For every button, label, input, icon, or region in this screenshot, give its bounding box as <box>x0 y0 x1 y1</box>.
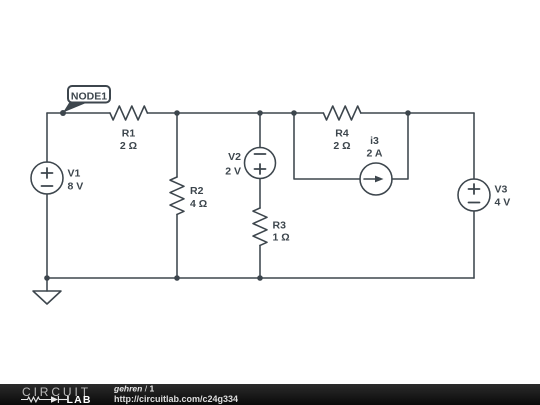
svg-text:V3: V3 <box>495 184 508 196</box>
voltage source V3 <box>458 179 490 211</box>
svg-text:NODE1: NODE1 <box>71 91 107 103</box>
wire right rail upper <box>473 113 475 179</box>
wire V2 to R3 <box>259 179 261 209</box>
junction dot loop right <box>405 110 411 116</box>
svg-text:2 Ω: 2 Ω <box>333 140 350 152</box>
junction dot bottom R3 <box>257 275 263 281</box>
ground <box>33 278 61 304</box>
resistor R1 <box>110 106 147 120</box>
wire top rail left <box>47 112 110 114</box>
svg-text:V2: V2 <box>228 151 241 163</box>
wire bottom rail <box>47 277 474 279</box>
current source i3 <box>360 163 392 195</box>
svg-text:gehren / 1: gehren / 1 <box>113 384 154 394</box>
node NODE1 flag <box>63 86 110 113</box>
svg-text:http://circuitlab.com/c24g334: http://circuitlab.com/c24g334 <box>114 394 238 404</box>
svg-text:4 V: 4 V <box>495 197 511 209</box>
junction dot top R2 <box>174 110 180 116</box>
svg-text:R1: R1 <box>122 128 136 140</box>
resistor R2 <box>170 177 184 214</box>
wire R2 branch lower <box>176 214 178 278</box>
svg-text:i3: i3 <box>370 135 379 147</box>
svg-text:LAB: LAB <box>67 394 92 405</box>
resistor R4 <box>323 106 360 120</box>
svg-text:V1: V1 <box>68 168 81 180</box>
svg-text:2 V: 2 V <box>225 165 241 177</box>
junction dot bottom ground <box>44 275 50 281</box>
junction dot NODE1 <box>60 110 66 116</box>
svg-text:2 A: 2 A <box>367 148 383 160</box>
svg-text:R3: R3 <box>273 220 287 232</box>
wire R3 branch lower <box>259 245 261 278</box>
svg-text:2 Ω: 2 Ω <box>120 140 137 152</box>
wire i3 loop left <box>294 113 360 179</box>
svg-text:R2: R2 <box>190 185 204 197</box>
svg-text:8 V: 8 V <box>68 181 84 193</box>
wire top rail middle <box>147 112 323 114</box>
current source i3 arrowhead <box>375 176 384 183</box>
svg-text:1 Ω: 1 Ω <box>273 232 290 244</box>
wire left rail upper <box>46 113 48 162</box>
resistor R3 <box>253 208 267 245</box>
wire top rail right <box>361 112 474 114</box>
junction dot top V2 <box>257 110 263 116</box>
footer logo schematic <box>21 396 67 403</box>
wire right rail lower <box>473 211 475 278</box>
svg-text:R4: R4 <box>335 128 349 140</box>
wire left rail lower <box>46 194 48 278</box>
wire R2 branch upper <box>176 113 178 177</box>
voltage source V1 <box>31 162 63 194</box>
wire V2 branch upper <box>259 113 261 148</box>
footer bar <box>0 384 540 405</box>
voltage source V2 <box>245 148 276 179</box>
junction dot bottom R2 <box>174 275 180 281</box>
junction dot loop left <box>291 110 297 116</box>
wire i3 loop right <box>392 113 408 179</box>
svg-text:4 Ω: 4 Ω <box>190 198 207 210</box>
